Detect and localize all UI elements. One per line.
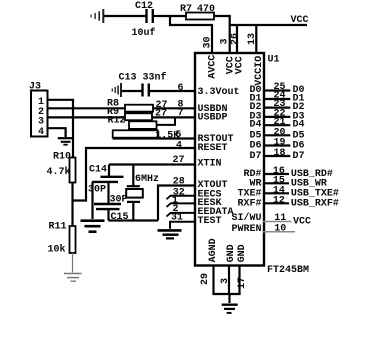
wire R11 to ground (gray) — [72, 253, 74, 273]
svg-text:5: 5 — [175, 130, 181, 141]
wire bottom gnd bar — [212, 293, 240, 295]
svg-text:R7: R7 — [180, 4, 192, 15]
svg-text:FT245BM: FT245BM — [267, 265, 309, 276]
wire R10 to R11 — [71, 183, 73, 227]
wire VCC rail — [230, 24, 307, 26]
wire ground to C12 — [104, 15, 147, 17]
svg-text:SI/WU: SI/WU — [231, 212, 261, 224]
svg-text:27: 27 — [173, 155, 185, 166]
svg-text:6: 6 — [178, 83, 184, 94]
svg-text:GND: GND — [237, 244, 248, 262]
svg-text:13: 13 — [247, 33, 258, 45]
wire D1 — [264, 98, 290, 100]
svg-text:RXF#: RXF# — [237, 198, 261, 209]
wire EESK row — [167, 203, 196, 207]
svg-text:C13 33nf: C13 33nf — [119, 72, 167, 84]
svg-text:4: 4 — [38, 127, 44, 138]
svg-text:30P: 30P — [88, 185, 106, 196]
wire D7 — [264, 155, 290, 157]
wire C14 to ground — [91, 182, 93, 219]
wire gnd stem — [228, 294, 230, 303]
svg-text:VCC: VCC — [235, 56, 246, 74]
svg-text:4: 4 — [176, 141, 182, 152]
svg-text:30: 30 — [203, 36, 214, 48]
wire pin 3 vertical — [229, 16, 231, 54]
ground (sideways) for C12 — [91, 9, 103, 23]
wire D3 — [264, 116, 290, 118]
wire J3 pin1 to R10 column — [48, 100, 74, 158]
svg-text:C12: C12 — [135, 1, 153, 12]
capacitor C13 — [119, 72, 167, 97]
svg-text:3.3Vout: 3.3Vout — [198, 87, 240, 98]
svg-text:U1: U1 — [268, 55, 280, 66]
svg-text:29: 29 — [200, 273, 211, 285]
wire SI/WU (gray) — [263, 221, 292, 223]
wire D4 — [264, 124, 290, 126]
ground below C14 — [81, 221, 105, 232]
svg-text:31: 31 — [171, 213, 183, 224]
wire PWREN (gray) — [263, 231, 295, 233]
wire J3 pin4 to ground — [48, 128, 66, 137]
svg-text:D6: D6 — [293, 141, 305, 152]
svg-text:11: 11 — [274, 213, 286, 224]
wire pin 13 stub — [255, 25, 257, 54]
svg-text:3: 3 — [220, 278, 231, 284]
svg-text:D7: D7 — [249, 151, 261, 162]
wire GND stub (pin9) — [228, 266, 230, 295]
svg-text:28: 28 — [173, 177, 185, 188]
wire EECS row — [167, 196, 196, 200]
svg-text:PWREN: PWREN — [231, 224, 261, 235]
svg-text:USB_RXF#: USB_RXF# — [291, 198, 339, 209]
svg-text:VCC: VCC — [293, 217, 311, 228]
resistor R12 upper box — [108, 116, 157, 129]
svg-text:R10: R10 — [53, 152, 71, 163]
svg-text:10k: 10k — [48, 244, 66, 256]
svg-text:21: 21 — [274, 117, 286, 128]
wire RESET branch — [73, 148, 196, 201]
wire D2 — [264, 106, 290, 108]
wire C14 to C15 — [107, 182, 109, 204]
wire ground to C13 — [121, 90, 143, 92]
svg-text:XTIN: XTIN — [198, 159, 222, 170]
wire D6 — [264, 144, 290, 146]
svg-text:D4: D4 — [293, 120, 305, 131]
wire RXF# — [264, 202, 289, 204]
ground for R11 (gray) — [64, 274, 82, 282]
svg-text:30P: 30P — [110, 195, 128, 206]
svg-text:7: 7 — [178, 108, 184, 119]
wire AVCC branch — [170, 16, 212, 54]
ground below chip — [222, 305, 238, 313]
svg-text:470: 470 — [197, 4, 215, 15]
wire D5 — [264, 134, 290, 136]
wire C15 to bottom rail — [107, 209, 109, 220]
svg-text:19: 19 — [274, 138, 286, 149]
svg-text:VCC: VCC — [291, 15, 309, 26]
wire R8 to chip pin 8 — [153, 107, 195, 109]
svg-text:17: 17 — [237, 277, 248, 289]
resistor R7 — [180, 4, 215, 20]
ground for J3 pin4 — [58, 138, 74, 145]
ground for EE bus — [158, 230, 182, 238]
svg-text:C14: C14 — [89, 165, 107, 176]
svg-text:D6: D6 — [249, 141, 261, 152]
wire bottom rail — [109, 219, 159, 221]
svg-text:4.7k: 4.7k — [47, 166, 71, 178]
wire RSTOUT pin 5 row — [113, 137, 195, 139]
capacitor C14 — [88, 165, 124, 196]
wire TEST row to ground — [170, 222, 195, 229]
wire WR — [264, 182, 289, 184]
svg-text:26: 26 — [230, 33, 241, 45]
resistor R9 — [107, 107, 167, 120]
wire GND stub (pin17) — [238, 266, 240, 295]
svg-text:10uf: 10uf — [132, 27, 156, 39]
wire EEDATA row — [167, 213, 196, 217]
svg-text:3: 3 — [219, 38, 230, 44]
svg-text:RESET: RESET — [198, 143, 228, 154]
svg-text:J3: J3 — [29, 82, 41, 93]
resistor 1.5K lower box — [113, 130, 180, 141]
svg-text:D7: D7 — [293, 151, 305, 162]
svg-text:D4: D4 — [249, 120, 261, 131]
wire R7 to pin 3 corner — [214, 15, 231, 17]
svg-text:VCCIO: VCCIO — [254, 56, 265, 86]
svg-text:R12: R12 — [108, 116, 126, 127]
op chip U1 FT245BM body — [195, 53, 309, 276]
svg-text:AGND: AGND — [208, 238, 219, 262]
ground (sideways) for C13 — [112, 83, 121, 97]
capacitor C15 — [94, 195, 129, 224]
svg-text:6MHz: 6MHz — [135, 174, 159, 185]
svg-text:3: 3 — [38, 117, 44, 128]
wire D0 — [264, 89, 290, 91]
connector J3 — [29, 82, 48, 139]
wire RD# — [264, 173, 289, 175]
svg-text:GND: GND — [226, 244, 237, 262]
wire C13 to chip pin 6 — [149, 90, 195, 92]
wire AGND stub — [212, 266, 214, 295]
resistor R8 — [107, 99, 168, 112]
wire XTIN down to C14 — [108, 165, 110, 177]
wire J3 pin3 to R9 — [48, 116, 126, 118]
resistor R11 — [48, 222, 76, 256]
wire XTOUT loop — [158, 186, 195, 221]
wire R12 to USBDP row — [157, 117, 176, 125]
wire J3 pin2 to R8 — [48, 107, 126, 109]
wire pin 26 stub — [236, 25, 238, 54]
wire R9 to chip pin 7 — [152, 116, 195, 118]
resistor R10 — [47, 152, 76, 183]
svg-text:18: 18 — [274, 148, 286, 159]
capacitor C12 — [132, 1, 156, 39]
svg-text:R11: R11 — [49, 222, 67, 233]
wire TXE# — [264, 192, 289, 194]
svg-text:12: 12 — [273, 195, 285, 206]
svg-text:10: 10 — [274, 224, 286, 235]
wire C12 to R7 — [153, 15, 186, 17]
svg-text:TEST: TEST — [198, 216, 222, 227]
wire XTIN row — [109, 163, 195, 165]
svg-text:USBDP: USBDP — [198, 113, 228, 124]
crystal Y1 6MHz — [126, 165, 159, 221]
svg-text:AVCC: AVCC — [208, 55, 219, 79]
